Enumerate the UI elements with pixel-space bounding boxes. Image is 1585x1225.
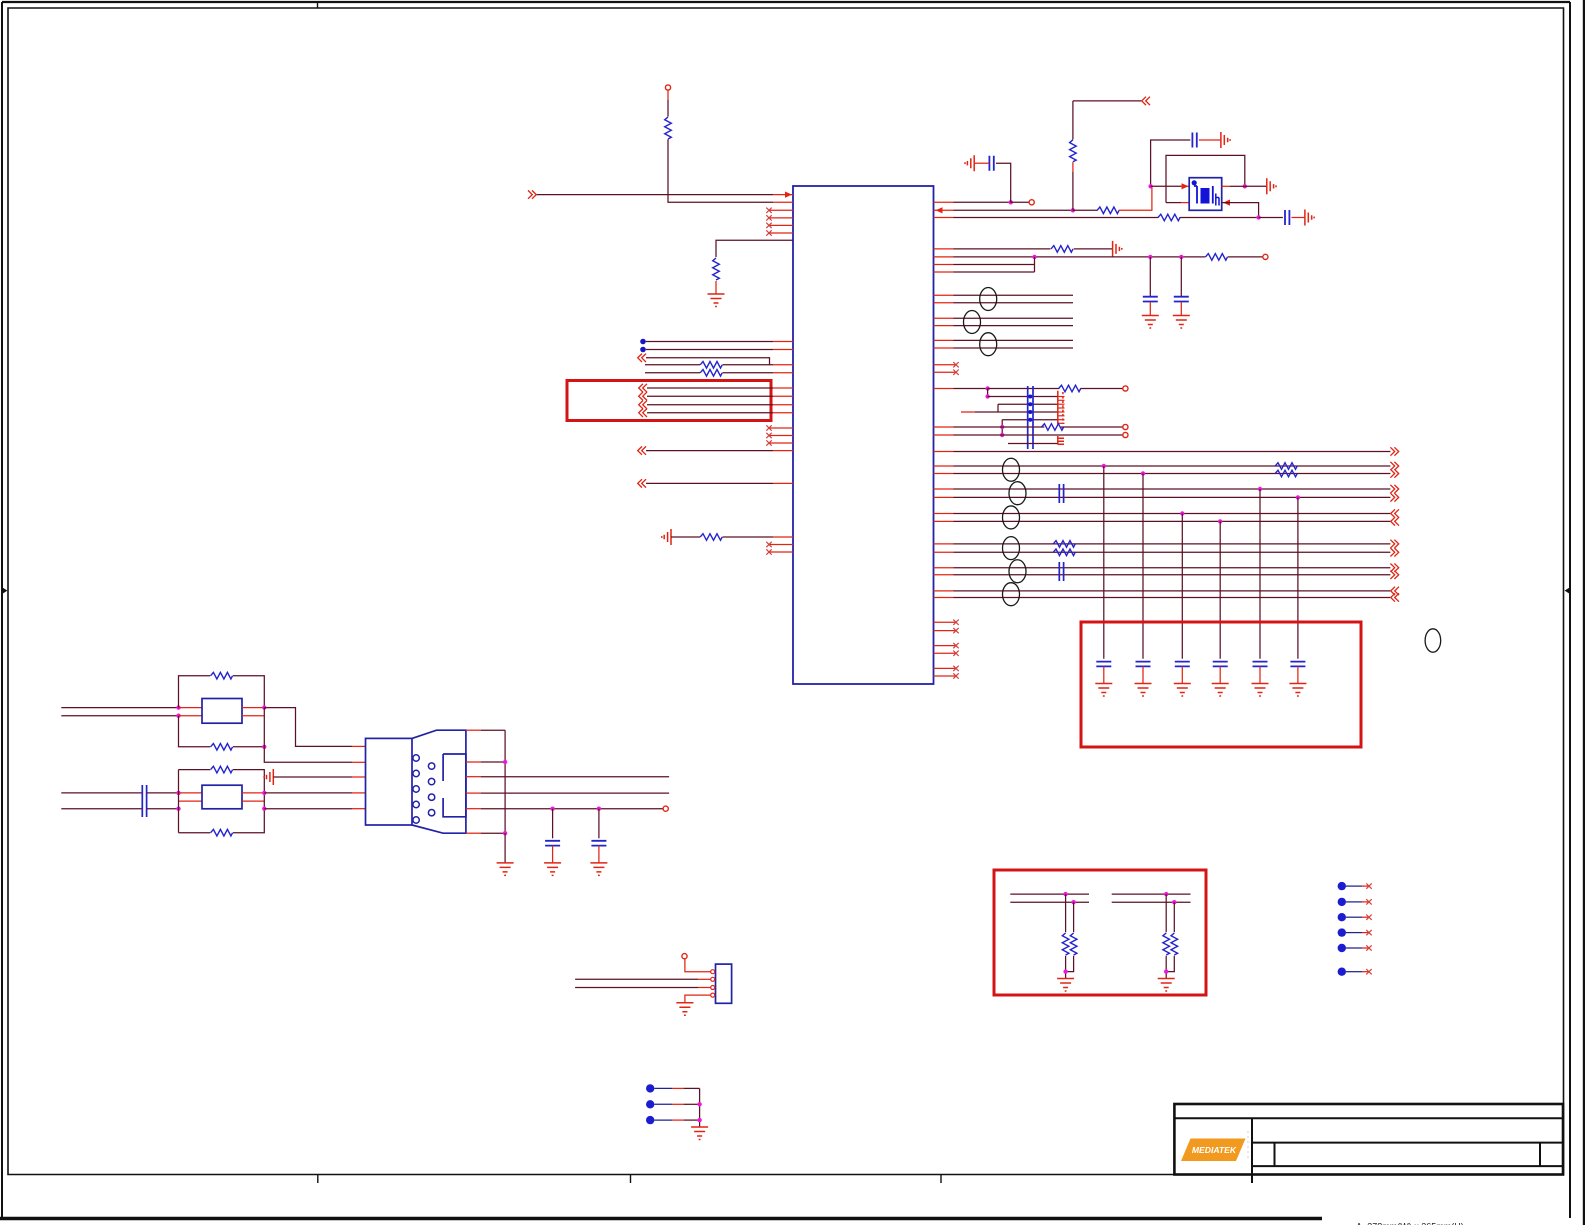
pair ellipse B1 <box>1003 458 1020 481</box>
wire <box>672 1103 684 1105</box>
wire pin stub <box>934 496 954 498</box>
wire <box>685 959 711 972</box>
wire <box>646 358 770 365</box>
wire <box>1180 217 1259 219</box>
wire diff pair 1a <box>954 294 1074 296</box>
wire bus row 1 y466 <box>954 465 1391 467</box>
no-connect pin stub R5 <box>934 645 957 647</box>
resistor R1 <box>665 117 672 139</box>
wire <box>1073 902 1075 932</box>
junction <box>1179 255 1183 259</box>
contact pad circle 6 <box>428 763 434 769</box>
no-connect X <box>1366 930 1371 935</box>
wire <box>1346 932 1362 934</box>
wire pin stub <box>934 513 954 515</box>
wire bus row 2 y489 <box>954 488 1391 490</box>
pin circle J2-4 <box>711 993 715 997</box>
wire <box>147 808 179 810</box>
wire <box>481 792 669 794</box>
ground <box>264 769 273 785</box>
pair ellipse P1 <box>980 288 997 311</box>
resistor R23 <box>211 766 233 773</box>
test point TP7 <box>646 1084 654 1092</box>
resistor R12 <box>1042 424 1064 431</box>
balun lower structure <box>1058 436 1064 445</box>
no-connect pin stub L6 <box>769 435 793 437</box>
wire xtal right pin <box>1222 185 1230 187</box>
wire <box>1165 956 1167 979</box>
test point TP2 <box>1338 898 1346 906</box>
ground <box>1173 316 1190 329</box>
wire <box>723 364 774 366</box>
wire net row240 <box>716 240 793 257</box>
ground <box>1142 316 1159 329</box>
ground <box>590 863 607 876</box>
wire loop top 2 <box>179 769 211 771</box>
junction <box>1148 255 1152 259</box>
resistor R4 <box>700 370 722 377</box>
no-connect pin stub L7 <box>769 442 793 444</box>
junction <box>176 705 180 709</box>
wire <box>1149 257 1151 296</box>
wire <box>1119 186 1152 210</box>
wire <box>1002 419 1057 421</box>
MEDIATEK logo <box>1181 1139 1246 1162</box>
border zone tick bottom 3 <box>940 1175 942 1184</box>
wire <box>1065 956 1067 979</box>
ground <box>1174 684 1191 697</box>
test point TP8 <box>646 1100 654 1108</box>
wire <box>242 715 264 717</box>
pin arrow Y1 <box>1182 183 1189 189</box>
junction <box>1071 208 1075 212</box>
capacitor column CC1 <box>1028 386 1033 449</box>
svg-text:MEDIATEK: MEDIATEK <box>1192 1145 1237 1155</box>
junction <box>1063 892 1067 896</box>
no-connect pin stub L4 <box>769 232 793 234</box>
junction <box>262 745 266 749</box>
wire <box>1245 185 1267 187</box>
off-page connector BUS4 <box>1390 548 1398 556</box>
pin arrow U1 <box>785 192 792 198</box>
wire pin stub <box>773 395 793 397</box>
ground <box>676 1003 693 1016</box>
no-connect pin stub R8 <box>934 675 957 677</box>
wire net RF2 <box>954 426 1045 428</box>
resistor R8 <box>1158 214 1180 221</box>
wire <box>1173 902 1175 932</box>
wire pin stub <box>934 520 954 522</box>
wire net N272 <box>954 271 1035 273</box>
wire bus row 3 y513.5 <box>954 513 1391 515</box>
wire <box>1199 139 1221 141</box>
wire <box>646 450 773 452</box>
contact pad circle 2 <box>413 770 419 776</box>
wire <box>1165 894 1167 932</box>
wire pin stub <box>773 341 793 343</box>
wire <box>667 90 669 100</box>
wire pin stub <box>352 761 366 763</box>
wire <box>242 800 264 802</box>
wire pin stub <box>352 776 366 778</box>
junction <box>503 760 507 764</box>
wire <box>671 536 700 538</box>
wire net RF1 <box>954 388 988 390</box>
wire <box>672 1119 684 1121</box>
wire pin stub <box>352 808 366 810</box>
resistor R14 <box>1275 470 1297 477</box>
off-page connector BUS5 <box>1390 571 1398 579</box>
wire <box>988 396 1058 398</box>
wire net N202 <box>954 201 1011 203</box>
wire <box>1259 217 1283 219</box>
capacitor C11 <box>1213 662 1228 667</box>
pin circle J2-3 <box>711 986 715 990</box>
wire <box>179 792 203 794</box>
wire pin stub <box>773 372 793 374</box>
wire rc row b1 <box>1010 901 1089 903</box>
no-connect pin stub L1 <box>769 209 793 211</box>
wire bus row 5 y567.7 <box>954 567 1391 569</box>
wire <box>598 809 600 839</box>
wire <box>646 482 773 484</box>
wire <box>179 800 203 802</box>
wire <box>1346 901 1362 903</box>
border centering arrow left <box>3 588 8 594</box>
wire <box>975 411 1058 413</box>
wire <box>998 403 1058 405</box>
wire <box>1008 443 1058 445</box>
resistor R16 <box>1053 549 1075 556</box>
wire <box>1080 388 1123 390</box>
wire <box>1346 971 1362 973</box>
pin arrow U1 <box>936 207 943 213</box>
wire drop 1 <box>1103 466 1105 659</box>
filter F1 <box>202 699 242 724</box>
wire net N217 <box>954 217 1159 219</box>
wire loop top <box>179 676 211 708</box>
wire pin stub <box>773 387 793 389</box>
wire pin stub <box>934 209 954 211</box>
resistor R21 <box>211 672 233 679</box>
wire J1 pin top <box>466 729 481 731</box>
wire <box>647 412 773 414</box>
wire pin stub <box>934 302 954 304</box>
wire pin stub <box>934 488 954 490</box>
junction <box>262 791 266 795</box>
wire <box>242 792 264 794</box>
wire <box>974 162 989 164</box>
capacitor C2 <box>1192 133 1196 148</box>
wire net IN1 <box>537 194 773 196</box>
wire pin stub <box>773 404 793 406</box>
junction <box>176 791 180 795</box>
wire <box>723 372 774 374</box>
spare ellipse <box>1425 629 1441 652</box>
resistor R7 <box>1070 140 1077 162</box>
contact pad circle 9 <box>428 810 434 816</box>
no-connect X <box>1366 969 1371 974</box>
pair ellipse P2 <box>964 311 981 334</box>
wire net N257 <box>954 256 1206 258</box>
wire pin stub <box>773 201 793 203</box>
wire <box>1065 894 1067 932</box>
wire <box>1228 256 1263 258</box>
ground <box>1095 684 1112 697</box>
pair ellipse B5 <box>1009 560 1026 583</box>
wire <box>1362 901 1369 903</box>
ground <box>1289 684 1306 697</box>
ground <box>1158 979 1175 992</box>
wire rc row a2 <box>1112 893 1191 895</box>
capacitor C13 <box>1290 662 1305 667</box>
border zone tick bottom 1 <box>317 1175 319 1184</box>
highlight box H1 <box>567 381 771 421</box>
wire <box>647 404 773 406</box>
wire <box>646 349 773 351</box>
wire input pair 2a <box>61 792 142 794</box>
wire pin stub <box>934 317 954 319</box>
no-connect pin stub L3 <box>769 224 793 226</box>
wire pin stub <box>934 271 954 273</box>
off-page connector BUS6 <box>1391 593 1399 601</box>
test point TP3 <box>1338 913 1346 921</box>
ground <box>1252 684 1269 697</box>
off-page connector B3 <box>639 401 647 409</box>
wire pin stub <box>934 473 954 475</box>
wire <box>504 730 506 833</box>
test point TP4 <box>1338 928 1346 936</box>
resistor R6 <box>1097 207 1119 214</box>
wire <box>988 388 1059 390</box>
off-page connector XO <box>1142 97 1150 105</box>
wire xtal bottom-left pin <box>1166 202 1181 204</box>
wire pin stub <box>934 451 954 453</box>
wire net N264 <box>954 264 1035 266</box>
wire pin stub <box>934 256 954 258</box>
wire <box>1061 426 1123 428</box>
junction <box>1172 900 1176 904</box>
ground <box>1113 241 1122 257</box>
IC U1 <box>793 186 934 684</box>
terminal T3 <box>1263 254 1268 259</box>
wire pin stub <box>934 465 954 467</box>
wire drop 5 <box>1259 489 1261 659</box>
wire bus row 4 y552.3 <box>954 551 1391 553</box>
off-page connector IN2 <box>638 354 646 362</box>
wire pin stub <box>773 194 793 196</box>
wire <box>1180 257 1182 296</box>
wire drop 3 <box>1181 514 1183 659</box>
contact pad circle 5 <box>413 817 419 823</box>
off-page connector B4 <box>639 409 647 417</box>
wire <box>481 776 669 778</box>
wire <box>1149 302 1151 315</box>
border centering arrow right <box>1565 588 1570 594</box>
junction <box>1063 969 1067 973</box>
terminal T5 <box>1123 424 1128 429</box>
wire xtal cap top <box>1151 140 1191 186</box>
wire <box>263 793 265 809</box>
junction <box>1148 184 1152 188</box>
off-page connector BUS0 <box>1390 447 1398 455</box>
terminal T4 <box>1123 386 1128 391</box>
wire bus row 4 y543.9 <box>954 543 1391 545</box>
wire <box>647 387 773 389</box>
wire pin stub <box>352 792 366 794</box>
capacitor C7 <box>1059 562 1063 581</box>
wire input pair 2b <box>61 808 142 810</box>
wire pin stub <box>934 574 954 576</box>
junction <box>985 386 989 390</box>
off-page connector IN4 <box>638 479 646 487</box>
wire output A <box>264 708 352 747</box>
off-page connector BUS5 <box>1390 564 1398 572</box>
junction <box>176 807 180 811</box>
junction <box>1256 215 1260 219</box>
off-page connector BUS3 <box>1391 517 1399 525</box>
wire <box>1362 947 1369 949</box>
wire pin stub <box>934 426 954 428</box>
wire <box>1001 420 1003 435</box>
capacitor C1 <box>989 156 993 171</box>
wire <box>1259 666 1261 683</box>
wire <box>233 676 264 708</box>
resistor R17 <box>1062 933 1069 955</box>
junction <box>597 807 601 811</box>
junction <box>1102 464 1106 468</box>
junction blue <box>1028 402 1032 406</box>
junction <box>1218 519 1222 523</box>
wire pin stub <box>773 450 793 452</box>
no-connect pin stub L9 <box>769 551 793 553</box>
off-page connector IN3 <box>638 446 646 454</box>
wire <box>654 1119 672 1121</box>
wire <box>147 792 179 794</box>
wire <box>1103 666 1105 683</box>
resistor R9 <box>1051 246 1073 253</box>
wire <box>178 793 180 833</box>
junction blue <box>1028 410 1032 414</box>
wire <box>1142 666 1144 683</box>
wire bus row 6 y597.5 <box>954 597 1391 599</box>
wire net N249 <box>954 248 1051 250</box>
capacitor C14 <box>142 785 146 817</box>
terminal T2 <box>1029 200 1034 205</box>
pair ellipse B2 <box>1009 482 1026 505</box>
wire <box>1034 257 1036 272</box>
wire net SRST <box>466 808 481 810</box>
wire pin stub <box>934 551 954 553</box>
resistor R5 <box>700 534 722 541</box>
capacitor C5 <box>1174 297 1189 302</box>
junction <box>1141 471 1145 475</box>
wire output B <box>264 747 352 763</box>
connector J1 body <box>366 730 466 833</box>
junction <box>1164 892 1168 896</box>
no-connect pin stub R3 <box>934 621 957 623</box>
wire <box>996 163 1011 202</box>
ground <box>1057 979 1074 992</box>
wire <box>263 708 265 747</box>
wire <box>1297 666 1299 683</box>
ground <box>662 529 671 545</box>
capacitor C12 <box>1253 662 1268 667</box>
wire pin stub <box>934 388 954 390</box>
junction <box>1032 255 1036 259</box>
wire pin stub <box>934 201 954 203</box>
wire <box>1362 916 1369 918</box>
off-page connector BUS4 <box>1390 540 1398 548</box>
wire <box>1346 885 1362 887</box>
wire <box>723 536 774 538</box>
test point TP5 <box>1338 944 1346 952</box>
contact pad circle 1 <box>413 755 419 761</box>
no-connect X <box>1366 945 1371 950</box>
capacitor C6 <box>1059 484 1063 503</box>
pair ellipse B4 <box>1003 537 1020 560</box>
junction blue <box>1028 395 1032 399</box>
resistor R19 <box>1163 933 1170 955</box>
capacitor C15 <box>545 841 560 846</box>
resistor R20 <box>1171 933 1178 955</box>
wire output C <box>264 792 352 794</box>
wire <box>481 808 663 810</box>
ground <box>708 294 725 307</box>
wire <box>668 139 773 202</box>
wire pin stub <box>934 347 954 349</box>
wire pin stub <box>934 248 954 250</box>
pair ellipse B3 <box>1003 506 1020 529</box>
filter F2 <box>202 785 242 809</box>
wire net N210 <box>954 209 1073 211</box>
no-connect pin stub R7 <box>934 667 957 669</box>
capacitor C16 <box>591 841 606 846</box>
wire <box>233 809 264 833</box>
wire drop 4 <box>1219 521 1221 658</box>
junction <box>262 705 266 709</box>
junction <box>1000 425 1004 429</box>
no-connect pin stub R2 <box>934 371 957 373</box>
wire <box>645 372 700 374</box>
wire pin stub <box>934 434 954 436</box>
wire <box>987 389 989 397</box>
junction <box>985 394 989 398</box>
terminal T7 <box>663 806 668 811</box>
wire net SIO <box>466 776 481 778</box>
wire input pair 1a <box>61 707 178 709</box>
wire pin stub <box>934 339 954 341</box>
test point TP9 <box>646 1116 654 1124</box>
wire <box>645 364 700 366</box>
wire <box>647 395 773 397</box>
wire <box>1362 885 1369 887</box>
wire diff pair 1b <box>954 302 1074 304</box>
junction blue <box>1028 418 1032 422</box>
wire net BUS0 <box>954 451 1391 453</box>
wire <box>1362 932 1369 934</box>
balun T-structure <box>1058 391 1065 425</box>
wire bus row 2 y497.4 <box>954 496 1391 498</box>
capacitor C10 <box>1175 662 1190 667</box>
wire bus row 6 y590.9 <box>954 590 1391 592</box>
off-page connector IN1 <box>528 190 536 198</box>
wire <box>233 746 264 748</box>
wire xtal bottom-right pin <box>1222 203 1259 218</box>
wire pin stub <box>934 597 954 599</box>
terminal T6 <box>1123 432 1128 437</box>
wire output D <box>264 808 352 810</box>
